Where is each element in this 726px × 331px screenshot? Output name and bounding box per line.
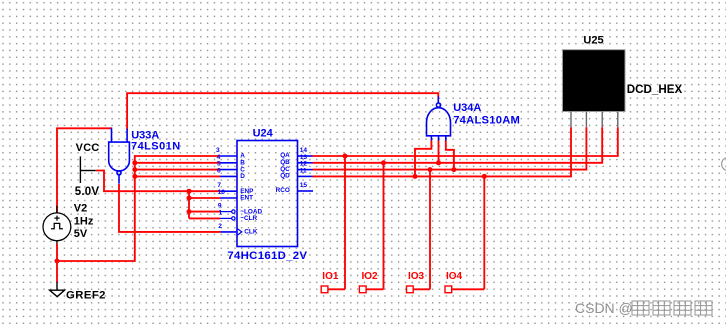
junction dot ~LOAD: [187, 209, 192, 214]
wire V2 minus to ground (red): [56, 244, 58, 283]
junction dot ENT: [187, 196, 192, 201]
junction dot QC IO3: [428, 167, 433, 172]
wire C blue stub: [220, 169, 237, 171]
wire IO4 riser from QD (red): [483, 176, 485, 289]
wire U34A input 1 from QD (red): [415, 141, 431, 177]
op-amp U33A NAND gate body: [109, 142, 130, 175]
pin CLK triangle: [237, 228, 242, 235]
wire IO3 riser from QC (red): [429, 170, 431, 290]
connector IO2: [359, 271, 383, 293]
wire to ENT (red): [189, 197, 220, 199]
connector IO1: [321, 271, 345, 293]
wire QC bus to U25 pin2 (red): [313, 127, 587, 169]
svg-text:74ALS10AM: 74ALS10AM: [453, 115, 520, 127]
wire CLK blue stub: [221, 231, 238, 233]
wire U34A input 3 from QC (red): [446, 141, 454, 170]
counter U24 body: [237, 141, 298, 247]
wire B blue stub: [220, 162, 237, 164]
display U25 DCD_HEX body: [563, 50, 626, 112]
junction dot QD gate tap: [413, 174, 418, 179]
wire U33A input A blue stub: [111, 128, 113, 143]
svg-text:15: 15: [300, 182, 308, 189]
svg-text:RCO: RCO: [276, 187, 290, 194]
wire IO1 riser from QA (red): [344, 156, 346, 289]
svg-text:11: 11: [300, 167, 307, 174]
watermark CJK glyph blocks: [632, 301, 712, 315]
svg-text:CLK: CLK: [244, 229, 258, 236]
wire D blue stub: [220, 175, 237, 177]
voltage source V2 clock: [43, 206, 71, 245]
svg-text:IO2: IO2: [362, 271, 379, 282]
svg-text:1: 1: [219, 209, 223, 216]
wire row C (red): [135, 169, 220, 171]
wire to ~CLR (red): [189, 217, 220, 219]
pin RCO stub unconnected: [298, 190, 314, 192]
svg-text:D: D: [240, 173, 245, 180]
wire U34A input stubs (blue): [431, 136, 445, 141]
wire to ~LOAD (red): [189, 211, 220, 213]
wire U34A input 2 from QB (red): [438, 141, 440, 163]
svg-text:IO3: IO3: [408, 271, 425, 282]
junction dot row C: [132, 167, 137, 172]
junction dot row B: [132, 160, 137, 165]
wire row D (red): [135, 175, 220, 177]
U24 right pin names: [276, 152, 291, 194]
wire QA blue stub: [298, 155, 313, 157]
VCC symbol: [80, 156, 95, 183]
svg-text:IO4: IO4: [446, 271, 463, 282]
wire ENP blue stub: [220, 190, 237, 192]
junction dot QB IO2: [381, 160, 386, 165]
svg-text:1Hz: 1Hz: [74, 215, 94, 227]
svg-text:2: 2: [218, 223, 222, 230]
svg-text:ENT: ENT: [240, 195, 253, 202]
junction dot ground branch: [55, 259, 60, 264]
wire U33A input B blue stub: [126, 129, 128, 142]
wire ~LOAD blue stub and bubble: [220, 210, 235, 213]
wire ground branch to data input rail (red): [57, 156, 220, 261]
svg-text:74HC161D_2V: 74HC161D_2V: [227, 250, 307, 262]
wire VCC to U24 ENP (red): [96, 171, 220, 192]
ground GREF2: [50, 282, 65, 297]
svg-text:QD: QD: [280, 173, 290, 180]
junction dot QD IO4: [482, 174, 487, 179]
svg-text:10: 10: [218, 189, 226, 196]
wire row B (red): [135, 162, 220, 164]
svg-text:U34A: U34A: [453, 102, 481, 114]
U24 left pin numbers: [216, 147, 225, 230]
wire QB blue stub: [298, 162, 313, 164]
svg-text:5V: 5V: [74, 228, 88, 240]
connector IO4: [445, 271, 484, 293]
junction dot QA IO1: [343, 154, 348, 159]
svg-text:5.0V: 5.0V: [75, 186, 100, 198]
svg-text:DCD_HEX: DCD_HEX: [627, 83, 683, 96]
junction dot ENP: [187, 189, 192, 194]
svg-text:~CLR: ~CLR: [240, 215, 257, 222]
op-amp U34A NAND3 gate body: [427, 103, 451, 136]
wire VCC branch vertical to ENT LOAD CLR (red): [188, 191, 190, 218]
wire QC blue stub: [298, 169, 313, 171]
svg-text:CSDN @: CSDN @: [575, 300, 633, 316]
wire U34A output blue stub: [437, 97, 439, 103]
wire IO2 riser from QB (red): [383, 163, 385, 289]
svg-text:6: 6: [217, 167, 221, 174]
wire QD blue stub: [298, 175, 313, 177]
svg-text:U24: U24: [253, 128, 274, 140]
svg-text:GREF2: GREF2: [66, 289, 106, 301]
U24 left pin names: [240, 153, 262, 236]
connector IO3: [407, 271, 431, 293]
wire ENT blue stub: [220, 197, 237, 199]
wire feedback U34A output to U33A input B (red, top rail): [127, 93, 438, 129]
cursor circle fragment right edge: [722, 157, 726, 170]
junction dot QB gate tap: [436, 160, 441, 165]
svg-text:U33A: U33A: [131, 129, 159, 141]
wire QD bus to U25 pin1 (red): [313, 127, 572, 176]
svg-text:V2: V2: [74, 202, 87, 214]
wire QB bus to U25 pin3 (red): [313, 127, 603, 163]
junction dot row D: [132, 174, 137, 179]
junction dot QC gate tap: [451, 167, 456, 172]
svg-text:U25: U25: [583, 35, 603, 47]
watermark CSDN: [575, 300, 633, 316]
wire A blue stub: [220, 155, 237, 157]
U24 right pin numbers: [300, 147, 308, 189]
svg-text:VCC: VCC: [76, 142, 100, 154]
wire QA bus to U25 pin4 (red): [313, 127, 618, 156]
wire ~CLR blue stub and bubble: [220, 217, 235, 220]
wire U33A output to U24 CLK (red): [119, 184, 221, 232]
svg-text:74LS01N: 74LS01N: [131, 141, 181, 153]
pin U25 leads (gray): [571, 112, 618, 128]
svg-text:IO1: IO1: [322, 271, 339, 282]
wire V2 plus to U33A input A (red): [57, 128, 112, 213]
wire U33A output blue stub: [118, 175, 120, 184]
